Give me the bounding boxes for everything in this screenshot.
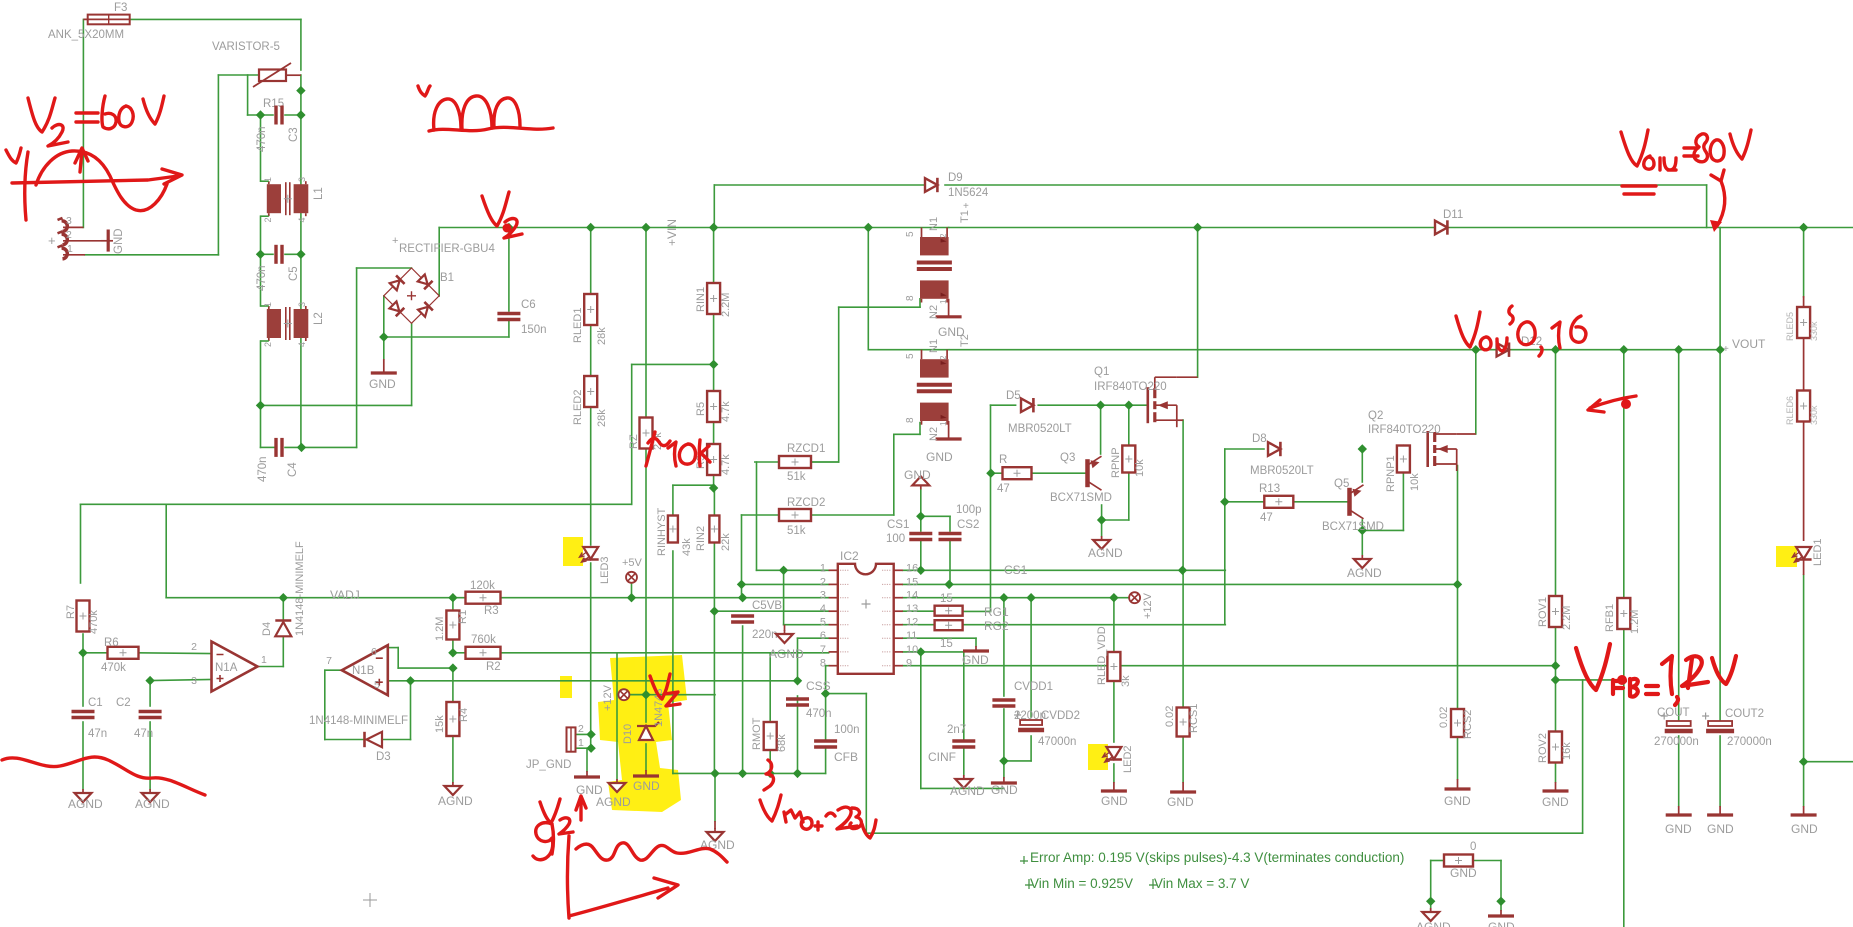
wire pin7 row down to AGND [616,653,618,779]
ground GND (ROV2) [1543,782,1569,791]
annotation Vout V [1621,130,1648,166]
wire RLED6 to LED1 [1803,421,1805,541]
junction [999,756,1008,765]
junction [1799,223,1808,232]
svg-text:10k: 10k [1134,459,1146,477]
wire CS1 net row pin16 [903,569,1225,571]
svg-text:+: + [963,201,969,212]
svg-text:+12V: +12V [1142,592,1154,619]
svg-text:RLED2: RLED2 [572,390,584,425]
junction [1551,675,1560,684]
wire +12V V2 row [624,694,715,696]
capacitor C3 [276,106,282,125]
svg-text:3: 3 [66,215,72,227]
svg-text:100: 100 [886,533,905,545]
zener diode D10 [637,722,659,740]
wire C2 bottom to AGND [149,722,151,789]
wire fuse to right column [130,18,301,20]
svg-text:+12V: +12V [602,684,614,711]
wire CS2 top lead [949,516,951,531]
svg-text:RPNP1: RPNP1 [1385,455,1397,492]
wire FB to ROV2 [1555,680,1557,732]
svg-text:GND: GND [113,228,125,254]
wire RLED_VDD to LED2 [1113,681,1115,742]
wire 0ohm right lead [1473,860,1501,862]
svg-text:14: 14 [906,590,918,602]
note origin ticks [1020,856,1157,889]
wire RFB1 top column [1623,350,1625,597]
wire JP pin1 lead [576,747,592,749]
annotation tilde2 [1509,306,1513,324]
junction [586,223,595,232]
capacitor COUT2 [1702,713,1734,732]
transistor Q5 [1350,485,1364,519]
svg-text:JP_GND: JP_GND [526,759,571,771]
wire RLED_VDD top [1113,598,1115,652]
wire JP pin2 lead [576,733,592,735]
svg-text:28k: 28k [596,409,608,427]
svg-text:CFB: CFB [834,750,858,764]
wire CS1 bottom to pin16 row [920,541,922,570]
wire CS1/CS2 top [921,515,950,517]
junction [1618,675,1627,684]
svg-text:15: 15 [906,576,918,588]
annotation V2b V [540,799,560,823]
annotation curved arrow down [1711,170,1725,226]
wire pin8 stub [826,665,829,667]
svg-text:+: + [392,235,398,247]
connector X1 [58,218,102,259]
svg-text:1: 1 [263,302,273,307]
svg-text:IC2: IC2 [840,549,859,563]
junction [296,250,305,259]
svg-text:GND: GND [926,450,953,464]
svg-text:1: 1 [261,654,267,666]
wire ROV1 to FB node [1555,627,1557,680]
capacitor CS1 [909,534,932,540]
wire LED1 to GND node [1803,575,1805,762]
svg-text:68k: 68k [776,734,788,752]
svg-text:R13: R13 [1259,483,1280,495]
svg-text:ANK_5X20MM: ANK_5X20MM [48,29,124,41]
junction [1426,897,1435,906]
wire GND arrow to CS1 cap [920,489,922,531]
junction [448,648,457,657]
wire pin10 row [903,651,964,653]
wire pin1 to pin5 leg [783,570,785,624]
svg-text:C6: C6 [521,299,536,311]
wire RPNP top [1128,405,1130,446]
wire L1 pin2 down to C5 row [260,216,262,254]
svg-text:470k: 470k [88,610,100,634]
svg-text:RZCD2: RZCD2 [787,497,825,509]
svg-text:GND: GND [1488,920,1515,927]
wire down to D3 [324,670,326,739]
junction [1715,345,1724,354]
svg-text:GND: GND [1444,794,1471,808]
svg-text:AGND: AGND [1347,566,1382,580]
annotation 80V [1694,130,1751,162]
wire RLED2 down to LED3 [590,407,592,545]
capacitor CVDD1 [992,700,1015,706]
resistor RZCD2 [779,509,811,521]
annotation v small [418,86,430,96]
svg-text:AGND: AGND [596,795,631,809]
wire D8 anode column down to RG2 row [1224,449,1226,625]
svg-text:CS2: CS2 [957,519,979,531]
wire AGND bus [673,772,826,774]
svg-text:330k: 330k [1809,321,1819,341]
wire C1 bottom to AGND [82,722,84,789]
svg-text:2n7: 2n7 [947,724,966,736]
junction [641,690,650,699]
wire RMOT bottom [769,750,771,773]
svg-text:C1: C1 [88,697,103,709]
wire RINHYST bottom to AGND bus [672,551,674,773]
svg-text:Q1: Q1 [1094,366,1109,378]
svg-text:R7: R7 [65,605,77,619]
resistor RCS2 [1451,709,1464,737]
svg-text:GND: GND [1450,866,1477,880]
wire to varistor left [218,74,259,76]
wire D5 anode lead [991,404,1016,406]
wire FB riser right [1582,680,1584,833]
wire R9 junction left [673,484,714,486]
svg-text:R2: R2 [486,661,501,673]
wire CVDD1 top [1003,598,1005,696]
svg-text:10: 10 [906,644,918,656]
svg-text:VARISTOR-5: VARISTOR-5 [212,41,280,53]
svg-text:C2: C2 [116,697,131,709]
junction [297,443,306,452]
annotation equals fb [1646,686,1658,694]
resistor RLED6 [1797,391,1810,422]
svg-text:D5: D5 [1006,390,1021,402]
ground GND (RCS2) [1445,779,1471,789]
svg-text:6: 6 [820,630,826,642]
wire pin11 to GND [903,637,976,639]
annotation 60V [102,96,164,129]
ground AGND (Q5) [1354,555,1371,568]
wire RG1 right lead [962,610,990,612]
svg-text:MBR0520LT: MBR0520LT [1250,465,1314,477]
wire D10 to GND [645,744,647,770]
resistor R 47 [1003,467,1032,479]
annotation g [533,823,554,860]
svg-text:N1: N1 [928,339,940,353]
svg-text:CVDD1: CVDD1 [1014,681,1053,693]
ground GND (CVDD) [991,777,1017,783]
wire V2 to D10 [645,695,647,722]
capacitor CSS [786,699,809,705]
wire pin5 row [784,624,829,626]
svg-text:Q3: Q3 [1060,452,1075,464]
resistor R5 [707,391,720,422]
wire Q2 drain up to VOUT diode row [1475,350,1477,434]
wire varistor right down [300,75,302,115]
wire Q5 emitter up [1361,449,1363,482]
junction [296,110,305,119]
wire R13 left lead [1225,501,1265,503]
capacitor CVDD2 [1014,712,1044,731]
junction [1178,566,1187,575]
supply +12V (pin14) [1129,592,1140,603]
junction [1674,345,1683,354]
diode D4 [275,621,291,637]
svg-text:2: 2 [66,229,72,241]
capacitor CS2 [939,534,962,540]
junction [999,593,1008,602]
wire RG2 right row [962,624,1225,626]
svg-text:2.2M: 2.2M [720,293,732,317]
resistor RLED1 [584,294,597,325]
svg-text:IRF840TO220: IRF840TO220 [1368,424,1441,436]
junction [256,110,265,119]
wire L2 pin4 down to C4 junction [300,337,302,447]
wire up to pin5 row [410,681,412,740]
svg-text:1N4148-MINIMELF: 1N4148-MINIMELF [294,541,306,636]
wire pin10 drop [920,652,922,789]
junction [1619,345,1628,354]
svg-text:470n: 470n [257,456,269,482]
wire bus down to Q1 drain [1197,228,1199,378]
junction [1453,580,1462,589]
wire RLED5 top lead [1803,296,1805,308]
annotation slash [646,432,655,466]
supply +12V (V2) [618,689,629,700]
svg-text:MBR0520LT: MBR0520LT [1008,423,1072,435]
wire opamp N1A output [257,666,283,668]
svg-text:RECTIFIER-GBU4: RECTIFIER-GBU4 [399,243,495,255]
wire +12V row pin14 [903,597,1129,599]
junction [1193,223,1202,232]
junction [448,663,457,672]
jumper JP_GND [567,727,576,751]
wire CS2 bottom to pin15 row [949,541,951,584]
svg-text:2: 2 [820,576,826,588]
wire T1 N2 pin8 left [839,306,920,308]
wire FB long bottom bus [866,832,1582,834]
wire to opamp in+ [150,680,211,681]
wire D3 right lead [382,739,411,741]
ground AGND (pin5) [776,630,793,643]
svg-text:CSS: CSS [806,679,831,693]
svg-text:RINHYST: RINHYST [656,507,668,556]
svg-text:270000n: 270000n [1654,736,1699,748]
ground GND (JP) [574,771,600,777]
svg-text:5: 5 [905,231,916,237]
annotation equals [76,113,98,122]
svg-text:0: 0 [1470,841,1476,853]
wire RZCD1 row [755,461,839,463]
svg-text:F3: F3 [114,2,127,14]
annotation V2 letter V [482,192,509,226]
svg-text:VOUT: VOUT [1732,337,1766,351]
wire to IC2 pin2 [742,583,829,585]
resistor RG1 [935,606,963,616]
capacitor CFB [814,741,837,747]
resistor ROV2 [1549,732,1562,763]
svg-text:2: 2 [263,217,273,222]
wire D5 anode column down to RG1 [990,405,992,611]
svg-text:GND: GND [962,653,989,667]
wire bus down to RLED chain right [1803,228,1805,298]
svg-text:T1: T1 [959,210,971,223]
junction [821,689,830,698]
junction [641,223,650,232]
junction [916,512,925,521]
wire bus up to D9 row [713,185,715,228]
capacitor CINF [952,741,975,747]
wire bus down to RIN1 [713,228,715,284]
wire riser up to rectifier AC1 [356,268,358,447]
transformer T2 [917,350,952,425]
wire lower gnd row [921,787,1004,789]
annotation ov [1480,337,1507,351]
wire down to varistor right [300,19,302,70]
svg-text:47: 47 [997,483,1010,495]
svg-text:GND: GND [1791,822,1818,836]
annotation subscript 2 [48,125,68,146]
capacitor C1 [72,712,95,718]
svg-text:270000n: 270000n [1727,736,1772,748]
svg-text:R3: R3 [484,605,499,617]
svg-text:7: 7 [820,644,826,656]
diode D5 [1021,398,1033,412]
wire up to varistor row [217,75,219,255]
annotation V2 dot on wire [503,224,512,233]
wire N1B output pin7 [325,669,343,671]
ground GND (input) [101,230,113,252]
svg-text:330k: 330k [1809,405,1819,425]
varistor VARISTOR-5 [253,63,301,87]
junction [586,744,595,753]
wire COUT top column [1678,350,1680,721]
ground AGND (Q3) [1093,536,1110,549]
wire C4 right [285,446,302,448]
wire RZ down to V2 node [645,448,647,695]
junction [1496,897,1505,906]
svg-text:N2: N2 [928,305,940,319]
capacitor COUT [1661,713,1693,732]
svg-text:ROV2: ROV2 [1537,733,1549,763]
resistor RG2 [935,620,963,630]
wire pin9 row [903,665,1556,667]
svg-text:100p: 100p [956,504,982,516]
svg-text:AGND: AGND [438,794,473,808]
svg-text:13: 13 [906,603,918,615]
op-amp N1A [212,642,258,692]
junction [78,648,87,657]
annotation V2b arrow [576,796,586,820]
svg-text:N1A: N1A [215,662,238,674]
svg-text:Q5: Q5 [1334,478,1349,490]
svg-text:470n: 470n [256,265,268,291]
wire AGND stem [714,821,716,829]
ground GND (COUT) [1666,806,1692,815]
svg-text:R: R [999,454,1007,466]
wire down to L2 pin3 [300,254,302,311]
svg-text:CVDD2: CVDD2 [1041,710,1080,722]
resistor RMOT [764,722,777,750]
wire down to RIN2 [713,488,715,521]
svg-text:RMOT: RMOT [751,717,763,750]
annotation sine curve [36,151,167,211]
annotation blob on FB node [1617,675,1627,685]
wire RIN2 column down to AGND bus [713,543,715,773]
svg-text:GND: GND [1167,795,1194,809]
wire varistor left down to C3 [247,75,249,115]
wire +12V symbol lead [629,694,646,696]
svg-text:6: 6 [371,646,377,658]
wire bus down to RLED1 [590,228,592,295]
wire CVDD2 to GND dot [1004,760,1031,762]
annotation equals vout [1684,148,1698,156]
annotation 1 [1662,656,1678,705]
wire FB riser down [865,694,867,834]
svg-text:47: 47 [1260,512,1273,524]
wire Q3 emitter up to gate row [1100,405,1102,454]
fuse F3 [83,15,129,25]
wire pin13 to RG1 [903,610,935,612]
junction [738,769,747,778]
svg-text:3: 3 [820,590,826,602]
svg-text:RLED6: RLED6 [1785,396,1795,425]
wire bus down to T2 [867,228,869,350]
resistor RLED_VDD [1107,652,1120,681]
junction [737,580,746,589]
diode D3 [365,732,383,747]
wire down to RINHYST [672,485,674,520]
wire right column down to L1 [300,115,302,186]
svg-text:1N5624: 1N5624 [948,187,989,199]
wire to C4 plate [261,446,275,448]
wire T2 N2 stub [919,423,921,435]
svg-text:1.2M: 1.2M [1629,610,1641,634]
svg-text:RCS2: RCS2 [1462,710,1474,739]
resistor RLED2 [584,376,597,407]
ground GND (LED1) [1791,806,1817,815]
svg-text:RG2: RG2 [984,619,1009,633]
junction [864,223,873,232]
svg-text:N1: N1 [928,217,940,231]
wire R2 row to pin7 [495,652,829,654]
annotation Vov V [1456,312,1480,347]
svg-text:4: 4 [297,217,307,222]
svg-text:C5VB: C5VB [752,600,782,612]
wire RZCD2 down to pin3 dot [741,515,743,598]
svg-text:LED2: LED2 [1122,745,1134,773]
resistor R1 [446,611,459,640]
junction [586,730,595,739]
svg-text:470n: 470n [256,126,268,152]
junction [709,483,718,492]
annotation 2 [1682,656,1708,688]
junction [916,566,925,575]
highlight V2 node blob [598,655,687,812]
resistor RCS1 [1177,708,1190,737]
annotation rectified humps [434,96,520,130]
svg-text:5: 5 [905,353,916,359]
ground GND (0ohm) [1488,910,1514,916]
svg-text:5: 5 [820,617,826,629]
wire Q3 collector row [1102,519,1129,521]
junction [406,676,415,685]
wire R5 to R9 [713,422,715,485]
ground AGND (CINF) [955,775,972,788]
resistor ROV1 [1549,596,1562,627]
ground GND (RCS1) [1170,782,1196,792]
